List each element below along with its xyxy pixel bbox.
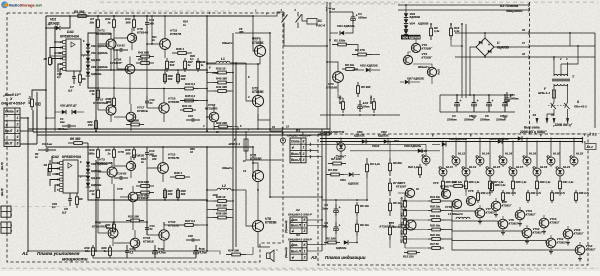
wire mid bus risers	[27, 118, 29, 129]
wire fuse line down to table	[281, 160, 283, 197]
svg-text:Дин.: Дин.	[290, 218, 298, 222]
svg-text:КТ819Б: КТ819Б	[265, 221, 277, 225]
highlighted label VD6 KD202V	[401, 35, 421, 40]
svg-text:R33 390: R33 390	[216, 121, 227, 125]
resistor ladder R21	[404, 235, 406, 237]
svg-text:КТ361Г: КТ361Г	[533, 230, 543, 234]
wire caps bottom rail	[440, 111, 515, 113]
svg-text:С3 1мк: С3 1мк	[42, 142, 53, 146]
svg-text:2мк: 2мк	[59, 120, 65, 124]
svg-text:R7 10к: R7 10к	[338, 95, 342, 104]
resistor R7 10k	[97, 16, 99, 20]
svg-text:2000мк: 2000мк	[509, 96, 520, 100]
svg-text:HL13: HL13	[469, 165, 476, 169]
svg-text:Х5: Х5	[550, 113, 555, 117]
svg-text:КТ361Г: КТ361Г	[526, 212, 536, 216]
svg-text:R2: R2	[44, 57, 48, 61]
svg-text:R46 1: R46 1	[176, 47, 184, 51]
wire DA2 pin1	[55, 185, 60, 192]
ground psu caps	[471, 115, 476, 117]
svg-text:ОНЦ-ВН-1-3/16-Р: ОНЦ-ВН-1-3/16-Р	[288, 212, 312, 216]
resistor R25t 12k	[450, 185, 454, 187]
svg-text:+: +	[339, 224, 341, 228]
resistor R6 80k	[389, 158, 391, 163]
capacitor C11	[146, 16, 148, 23]
svg-text:R2 470: R2 470	[355, 48, 365, 52]
wire x88 top B	[87, 143, 89, 158]
resistor R43 360	[213, 82, 218, 84]
svg-text:R31 10: R31 10	[182, 104, 192, 108]
svg-text:100мкГн: 100мкГн	[222, 42, 233, 45]
connector X1 table	[4, 108, 20, 146]
svg-text:-15В: -15В	[212, 193, 218, 197]
transistor VT4 KT203G	[427, 67, 436, 76]
resistor R18 680	[113, 96, 115, 98]
svg-text:R24 390: R24 390	[128, 119, 139, 123]
svg-text:R31 1,3к: R31 1,3к	[563, 180, 574, 184]
wires a3 left cluster	[335, 200, 337, 204]
diode VD4 KD522B	[87, 48, 89, 51]
rail A3 top y138	[320, 138, 583, 140]
resistor R12 220	[404, 252, 408, 254]
connector X2 table upper	[290, 217, 307, 234]
wire X1 row2 to bus	[20, 117, 28, 119]
svg-text:HL12: HL12	[458, 152, 465, 156]
resistor R9c 82k	[389, 222, 391, 227]
svg-text:С7: С7	[510, 93, 514, 97]
wire y33 top right	[235, 32, 270, 34]
svg-text:R26 1,3к: R26 1,3к	[495, 183, 506, 187]
wire contact K1.1 down	[284, 28, 327, 46]
wire rail A x55 vertical	[54, 26, 56, 118]
svg-text:VD9 КД522Б: VD9 КД522Б	[449, 137, 467, 141]
svg-text:R3 1,2к: R3 1,2к	[370, 162, 381, 166]
resistor R3 360	[72, 15, 78, 17]
resistor R31 1,3к	[559, 178, 561, 181]
svg-text:R22 1,3к: R22 1,3к	[408, 165, 419, 169]
svg-text:10мк: 10мк	[321, 224, 328, 228]
svg-text:2: 2	[303, 256, 306, 260]
board K2 boundary (dashed)	[529, 2, 531, 134]
resistor R25 1,3к	[442, 178, 444, 181]
wire y235 row link	[146, 222, 148, 235]
svg-text:⏚: ⏚	[5, 122, 8, 126]
wire y222 row	[96, 221, 147, 223]
resistor R22 1,3k first	[419, 164, 421, 167]
wire mid rail B y200	[96, 199, 207, 201]
svg-text:д 3.1: д 3.1	[589, 133, 597, 137]
svg-text:R21 5,6к: R21 5,6к	[400, 232, 403, 243]
svg-text:680мкГн: 680мкГн	[418, 65, 430, 69]
svg-text:R25 12к: R25 12к	[452, 180, 463, 184]
svg-text:R42 360: R42 360	[216, 85, 227, 89]
transistor VT10 KT361G	[522, 228, 532, 238]
svg-text:VD7 КД522Б: VD7 КД522Б	[407, 77, 424, 81]
svg-text:КР538УН3А: КР538УН3А	[60, 34, 80, 38]
resistor R46 1	[172, 52, 178, 54]
svg-text:100мкГн: 100мкГн	[222, 167, 233, 170]
transistor VT1 KT815B psu	[333, 72, 344, 83]
svg-text:КТ203Г: КТ203Г	[422, 47, 433, 51]
svg-text:VD6 КД522Б: VD6 КД522Б	[91, 65, 108, 69]
wire right edge x595	[594, 33, 596, 128]
wire y33 link	[88, 32, 96, 34]
svg-text:защиты: защиты	[506, 9, 523, 13]
svg-text:1: 1	[304, 249, 306, 253]
pin marks A3 top border	[320, 133, 323, 134]
svg-text:HL20: HL20	[553, 152, 560, 156]
resistor R45 vertical	[197, 58, 199, 61]
svg-text:КД522Б: КД522Б	[336, 246, 346, 250]
capacitor C7 2200mk	[504, 95, 506, 103]
svg-text:R6 10к: R6 10к	[345, 63, 355, 67]
svg-text:КТ361Г: КТ361Г	[557, 240, 567, 244]
svg-text:R55 390: R55 390	[216, 204, 227, 208]
resistor R14 10k	[428, 200, 432, 202]
resistor R8b 82k	[389, 198, 391, 203]
svg-text:2: 2	[302, 152, 305, 156]
wire input bus v2	[32, 110, 34, 131]
resistor R3 1,2k	[366, 158, 368, 164]
svg-text:360: 360	[126, 151, 131, 155]
svg-text:DA1: DA1	[67, 30, 74, 34]
capacitor C4 2mk	[62, 125, 68, 127]
resistor R55 390	[213, 209, 218, 211]
svg-text:VT9: VT9	[118, 150, 124, 154]
svg-text:HL10: HL10	[420, 149, 427, 153]
resistor R29 1,3к	[536, 178, 538, 181]
svg-text:1к: 1к	[107, 20, 111, 24]
connector X3 table	[290, 138, 306, 163]
svg-text:100: 100	[181, 77, 186, 81]
wire top leds to bottom join	[450, 167, 456, 174]
svg-text:КД202В: КД202В	[418, 21, 428, 25]
wire speaker feed x270 down	[270, 135, 283, 197]
wire output node B	[206, 189, 208, 190]
svg-text:+: +	[492, 99, 494, 103]
svg-text:КТ361Б: КТ361Б	[143, 239, 154, 243]
svg-text:VD1 КД522Б: VD1 КД522Б	[337, 24, 355, 28]
wire diode chain bottom	[88, 76, 96, 88]
resistor R20 10k	[428, 229, 432, 231]
wire y42 DA1 top link	[45, 16, 47, 28]
wire vert x322 bundle	[321, 129, 323, 251]
resistor R33 2,7к	[527, 190, 529, 193]
wire x55 taps	[46, 117, 55, 119]
resistor ladder R13	[404, 199, 406, 201]
diode VD5 KD522B a3	[344, 240, 348, 244]
svg-text:10мк: 10мк	[321, 206, 328, 210]
resistor R17 56	[428, 247, 432, 249]
wire x130-ish verticals B	[132, 208, 134, 230]
svg-text:”: ”	[276, 249, 278, 253]
resistor R34 2,7к	[551, 190, 553, 193]
svg-text:R26 1,3к: R26 1,3к	[469, 180, 480, 184]
capacitor C2 10mk a3	[335, 222, 337, 227]
svg-text:R20 10к: R20 10к	[430, 224, 441, 228]
resistor R15 360	[133, 147, 135, 150]
svg-text:1,3к: 1,3к	[434, 29, 440, 33]
wire x88 top	[88, 33, 96, 40]
svg-text:1: 1	[17, 116, 19, 120]
wire x207 vertical trunk B	[206, 147, 208, 251]
resistor R6 360	[68, 142, 74, 144]
wire y148 inner rail	[334, 143, 426, 145]
svg-text:VD10: VD10	[372, 144, 380, 148]
capacitor C12	[146, 96, 148, 101]
svg-text:R9 12к: R9 12к	[360, 223, 369, 227]
wire output node A	[207, 63, 260, 65]
svg-text:⏚: ⏚	[291, 256, 294, 260]
wire y56 link	[50, 55, 66, 57]
resistor R56 390	[213, 217, 218, 219]
diode VD5 KD202V	[405, 24, 407, 26]
wire DA2 pin13	[52, 173, 60, 175]
resistor R28 100	[177, 72, 179, 74]
wire rail y46 right	[494, 46, 530, 48]
capacitor C20 small	[186, 239, 192, 241]
capacitor C7b 2000mk left	[506, 92, 508, 98]
svg-text:R29 1,3к: R29 1,3к	[540, 180, 551, 184]
wire mid rail A y70	[96, 69, 207, 71]
resistor R26 100	[164, 72, 166, 74]
capacitor C1 10mk a3	[335, 204, 337, 209]
resistor R14 1k	[113, 147, 115, 150]
transistor VT12 KT361G	[546, 238, 556, 248]
svg-text:VT5: VT5	[468, 189, 474, 193]
svg-text:С2: С2	[37, 102, 41, 106]
svg-text:0,1: 0,1	[52, 205, 56, 209]
svg-text:+: +	[339, 206, 341, 210]
wire rail y57 right	[484, 56, 486, 57]
wire bottom link right	[207, 251, 220, 255]
capacitor C6 2200mk	[488, 95, 490, 103]
svg-text:КТ3107: КТ3107	[396, 185, 406, 189]
wire bridge top to rail33	[484, 33, 486, 38]
resistor R9 under DA2	[76, 193, 78, 197]
resistor R19 12k	[92, 245, 94, 248]
svg-text:360: 360	[126, 20, 131, 24]
wire channelA emitters	[164, 70, 166, 84]
svg-text:R33 10: R33 10	[216, 67, 226, 71]
svg-text:РЭС-6: РЭС-6	[316, 23, 325, 27]
relay contact K1.1	[283, 12, 285, 17]
transistor VT7 KT361G	[475, 208, 485, 218]
wire y100 row	[180, 100, 207, 102]
svg-text:КД522Б: КД522Б	[378, 134, 389, 138]
wire r33 link	[232, 127, 238, 130]
svg-text:КТ815Б: КТ815Б	[168, 100, 180, 104]
wire x46 to bus	[45, 129, 47, 131]
wire VT2 emitter to bus	[257, 114, 259, 129]
wire mid bus y135	[37, 134, 330, 136]
svg-text:VT16: VT16	[445, 205, 452, 209]
svg-text:R33 2,7к: R33 2,7к	[531, 191, 542, 195]
svg-text:КТ361Г: КТ361Г	[550, 220, 560, 224]
wire relay coil leads	[302, 14, 307, 21]
wire contacts top feed	[262, 12, 284, 16]
wire rail B x46 vertical	[45, 131, 47, 147]
svg-text:4: 4	[16, 135, 19, 139]
transistor VT13 KT361G	[539, 218, 549, 228]
wire psu mid links	[338, 92, 343, 98]
svg-text:(Правый): (Правый)	[284, 220, 288, 233]
svg-text:5,1: 5,1	[190, 57, 194, 61]
svg-text:VD4 КД522Б: VD4 КД522Б	[91, 51, 108, 55]
transistor VT11 KT361G	[515, 210, 525, 220]
svg-text:КТ3107БМ: КТ3107БМ	[380, 225, 395, 229]
wire speaker feed vertical x236	[235, 63, 237, 247]
svg-text:12к: 12к	[85, 249, 90, 253]
wire DA1 pin1	[58, 64, 63, 72]
wire mid bus y132	[33, 131, 330, 133]
svg-text:0,1: 0,1	[129, 250, 133, 254]
resistor R7 10k psu	[342, 98, 344, 102]
resistor R5 10k a3	[356, 202, 358, 205]
wire diode chain B bottom	[88, 187, 96, 200]
svg-text:VD8 КД522Б: VD8 КД522Б	[404, 144, 421, 148]
svg-text:R28 1,3к: R28 1,3к	[516, 180, 527, 184]
pins A3 right edge	[582, 137, 583, 140]
svg-text:R14 10к: R14 10к	[430, 195, 441, 199]
pin marks K2 border	[528, 3, 529, 6]
svg-text:Плата индикации: Плата индикации	[325, 255, 366, 260]
svg-text:360: 360	[239, 30, 244, 34]
svg-text:51: 51	[149, 101, 153, 105]
transformer leads top	[553, 57, 555, 76]
svg-text:3: 3	[17, 129, 19, 133]
svg-text:R37 0,1: R37 0,1	[185, 219, 196, 223]
svg-text:R2 120: R2 120	[331, 157, 341, 161]
svg-text:DA2: DA2	[52, 155, 59, 159]
svg-text:Вых.П: Вых.П	[291, 152, 302, 156]
svg-text:5: 5	[17, 142, 19, 146]
svg-text:0,5: 0,5	[68, 89, 73, 93]
resistor R17b 1k	[97, 188, 99, 190]
wires X3 to board	[306, 143, 334, 145]
transistor VT2 KT203G	[411, 43, 420, 52]
svg-text:R4 150: R4 150	[328, 168, 338, 172]
svg-text:КТ361Б: КТ361Б	[137, 109, 148, 113]
svg-text:VD4: VD4	[340, 178, 346, 182]
wire x270 to bus	[269, 129, 271, 131]
wire vt4 down	[431, 77, 433, 84]
svg-text:ОНЦ-ВН-1-3/16-Р: ОНЦ-ВН-1-3/16-Р	[288, 237, 312, 241]
wire fuse down	[246, 154, 282, 160]
svg-text:R48 1: R48 1	[174, 171, 182, 175]
svg-text:R23 390: R23 390	[128, 215, 139, 219]
wire psu gnd rail	[320, 114, 400, 116]
svg-text:HL14: HL14	[482, 152, 489, 156]
junction dots channel A extra	[87, 15, 89, 17]
svg-text:КТ818Б: КТ818Б	[252, 41, 264, 45]
wire top rail channel B	[46, 146, 253, 148]
svg-text:100: 100	[168, 77, 173, 81]
wire x98 col	[97, 44, 99, 88]
resistor R7 80k	[389, 178, 391, 183]
svg-text:R4: R4	[44, 163, 48, 167]
resistor R33m 390	[214, 126, 219, 128]
diode chain VD3 KD522B	[87, 40, 89, 44]
svg-text:12: 12	[332, 7, 336, 11]
wire input bus vertical	[27, 118, 29, 251]
svg-text:VD2 ДПЛ Д7: VD2 ДПЛ Д7	[60, 104, 77, 108]
svg-text:ВПб 2-1: ВПб 2-1	[229, 142, 241, 146]
wire DA1 pin5	[60, 69, 63, 76]
transistor VT8 KT361G	[498, 219, 508, 229]
svg-text:R22 10к: R22 10к	[430, 233, 441, 237]
svg-text:R43 360: R43 360	[216, 77, 227, 81]
wire DA2 output	[78, 175, 88, 177]
svg-text:КД522Б: КД522Б	[354, 134, 365, 138]
capacitor C7 0,5	[73, 71, 75, 77]
svg-text:R17 5,6к: R17 5,6к	[400, 214, 403, 225]
svg-text:ВПБ-1-1: ВПБ-1-1	[538, 91, 550, 95]
svg-text:HL16: HL16	[505, 152, 512, 156]
svg-text:Вых.Л: Вых.Л	[291, 158, 302, 162]
svg-text:КТ361Г: КТ361Г	[509, 221, 519, 225]
svg-text:R35 0,1: R35 0,1	[185, 94, 196, 98]
capacitor C2 10mk psu	[359, 100, 361, 105]
wire X1 row4 to bus	[20, 130, 33, 132]
svg-text:100: 100	[152, 157, 157, 161]
wire rail y150.8	[350, 150, 440, 152]
wire X1 row6 to bus	[20, 143, 37, 145]
resistor R25 390	[226, 254, 232, 256]
diode VD4 KD202V	[405, 18, 407, 20]
svg-text:КТ361Г: КТ361Г	[440, 185, 450, 189]
svg-text:Вых.Л: Вых.Л	[291, 249, 302, 253]
svg-text:КТ203Г: КТ203Г	[422, 56, 433, 60]
svg-text:Х4: Х4	[295, 233, 300, 237]
transistor VT15 KT361G	[563, 229, 573, 239]
svg-text:КТ815Б: КТ815Б	[326, 86, 338, 90]
resistor R26t 1,3k	[491, 181, 493, 183]
resistor ladder R17	[404, 217, 406, 219]
wire input top link	[32, 90, 46, 96]
capacitor C19 small	[186, 119, 192, 121]
diode VD3 KD202V	[405, 5, 407, 13]
svg-text:R56 390: R56 390	[216, 212, 227, 216]
wire C1 top	[330, 11, 353, 13]
diode VD11 on rail	[498, 139, 502, 143]
resistor R9 1,3k	[430, 24, 432, 28]
resistor R10 160k	[97, 147, 99, 150]
svg-text:2: 2	[16, 122, 19, 126]
svg-text:С19: С19	[188, 114, 193, 118]
watermark logo icon	[1, 1, 8, 8]
wire DA2 pin8	[50, 180, 60, 187]
svg-text:R6 360: R6 360	[70, 137, 81, 141]
resistor R41 680	[136, 56, 141, 58]
fuse F VPB-1U	[552, 90, 555, 98]
svg-text:100: 100	[181, 192, 186, 196]
svg-text:R6 80к: R6 80к	[393, 161, 402, 165]
svg-text:КЦ405Б: КЦ405Б	[497, 45, 510, 49]
node dots rail A	[97, 15, 99, 17]
svg-text:510: 510	[170, 63, 175, 67]
wire x114 col	[113, 38, 115, 96]
pin marks A1 right border	[282, 14, 283, 17]
svg-text:КТ361Г: КТ361Г	[486, 210, 496, 214]
capacitor C1 100mk	[352, 12, 354, 17]
svg-text:С20: С20	[188, 234, 193, 238]
wire DA2 pin2	[48, 169, 60, 177]
svg-text:VD2 КД522Б: VD2 КД522Б	[360, 64, 378, 68]
wire x270 vertical channel A	[269, 33, 271, 131]
resistor ladder R19	[404, 226, 406, 228]
resistor R30 2,7к	[477, 190, 479, 193]
